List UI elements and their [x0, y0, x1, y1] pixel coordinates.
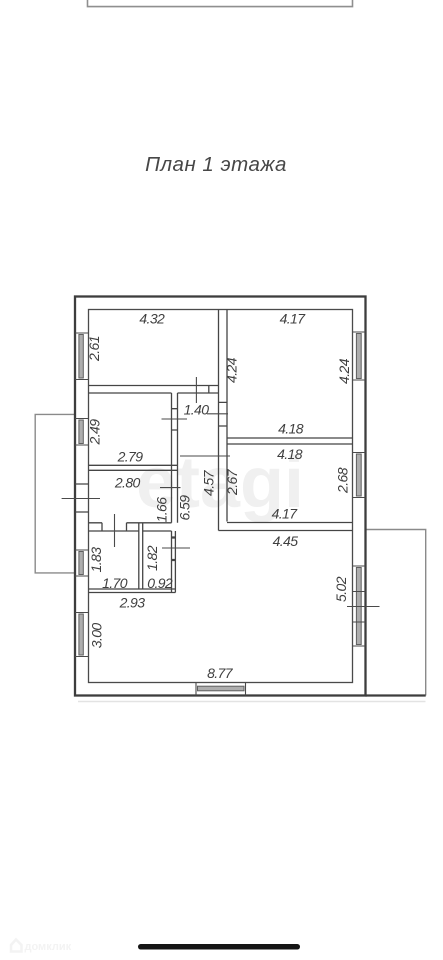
inner wall faces: [89, 310, 353, 683]
svg-text:4.17: 4.17: [280, 311, 307, 327]
window W6 right 2.68: [356, 454, 361, 496]
wall bath top lower face: [89, 530, 172, 532]
dimension labels: [86, 311, 352, 682]
svg-text:2.49: 2.49: [87, 419, 103, 446]
jamb central wall dividers: [219, 402, 228, 426]
svg-text:2.68: 2.68: [335, 467, 351, 494]
window W5 right 4.24: [356, 334, 361, 379]
shadow line under plan: [78, 701, 426, 703]
svg-text:4.24: 4.24: [224, 357, 240, 383]
svg-text:1.82: 1.82: [144, 545, 160, 571]
svg-text:5.02: 5.02: [333, 576, 349, 602]
tick central wall 4.57: [180, 455, 230, 457]
tick wc right: [162, 547, 190, 549]
watermark domclick logo: [11, 940, 22, 952]
jamb hall wall dividers: [172, 409, 178, 430]
svg-text:4.24: 4.24: [336, 358, 352, 384]
window W1 left 2.61: [79, 335, 83, 379]
wall hall vertical left face: [171, 393, 173, 523]
interior partitions: [75, 310, 353, 593]
wall roomA-roomB divider: [89, 465, 178, 470]
dimension ticks: [62, 377, 380, 607]
door jambs wc door: [172, 538, 176, 561]
svg-text:План 1 этажа: План 1 этажа: [145, 153, 287, 176]
svg-text:8.77: 8.77: [207, 665, 234, 681]
svg-text:2.80: 2.80: [114, 475, 141, 491]
wall bath top upper face with door gap: [89, 522, 172, 524]
wall bath-wc divider: [139, 523, 143, 589]
svg-text:2.79: 2.79: [117, 449, 144, 465]
outer walls: [75, 297, 426, 696]
tick bath top: [114, 514, 116, 547]
jamb bedroom1 door: [208, 386, 210, 394]
wall wc right faces: [172, 531, 176, 593]
wall hall vertical right face: [177, 393, 179, 523]
svg-text:6.59: 6.59: [177, 495, 193, 521]
svg-text:3.00: 3.00: [89, 623, 105, 649]
window W2 left 2.49: [79, 420, 83, 444]
right porch annex: [366, 530, 426, 696]
svg-text:2.93: 2.93: [119, 595, 146, 611]
tick roomA right wall: [162, 418, 188, 420]
tick bedroom1 bottom: [195, 377, 197, 403]
svg-text:2.67: 2.67: [224, 468, 240, 496]
windows: [75, 332, 366, 696]
home indicator bar: [138, 944, 300, 950]
svg-text:4.18: 4.18: [277, 446, 303, 462]
wall room2 bottom lower face: [219, 530, 353, 532]
window W7 right 5.02: [356, 568, 361, 645]
svg-text:4.57: 4.57: [201, 469, 217, 496]
jamb left wall dividers: [75, 484, 89, 512]
wall central vertical left face: [218, 310, 220, 531]
tick left wall: [62, 498, 100, 500]
svg-text:1.70: 1.70: [102, 575, 128, 591]
tick dim line 1.40: [207, 413, 228, 415]
window W8 bottom 8.77: [198, 686, 245, 691]
door jambs bath door: [102, 523, 127, 531]
wall room2 top faces: [227, 438, 353, 444]
wall bedroom1 bottom lower face: [89, 392, 219, 394]
svg-text:1.66: 1.66: [154, 497, 170, 523]
svg-text:1.83: 1.83: [88, 547, 104, 573]
left porch annex: [35, 414, 75, 573]
svg-text:2.61: 2.61: [86, 336, 102, 362]
top cropped photo frame: [88, 0, 353, 7]
window W3 left 1.83: [79, 552, 83, 575]
wall bath bottom: [89, 589, 176, 593]
svg-text:4.32: 4.32: [139, 311, 165, 327]
tick hall wall: [160, 487, 181, 489]
svg-text:4.45: 4.45: [273, 533, 299, 549]
svg-text:4.18: 4.18: [278, 421, 304, 437]
tick right wall 5.02: [347, 606, 380, 608]
svg-text:1.40: 1.40: [184, 402, 210, 418]
wall room2 bottom upper face: [227, 522, 353, 524]
window W4 left 3.00: [79, 614, 83, 655]
svg-text:0.92: 0.92: [147, 575, 173, 591]
wall bedroom1 bottom upper face: [89, 385, 219, 387]
svg-text:4.17: 4.17: [272, 506, 299, 522]
svg-text:домклик: домклик: [25, 941, 72, 953]
wall central vertical right face: [226, 310, 228, 522]
